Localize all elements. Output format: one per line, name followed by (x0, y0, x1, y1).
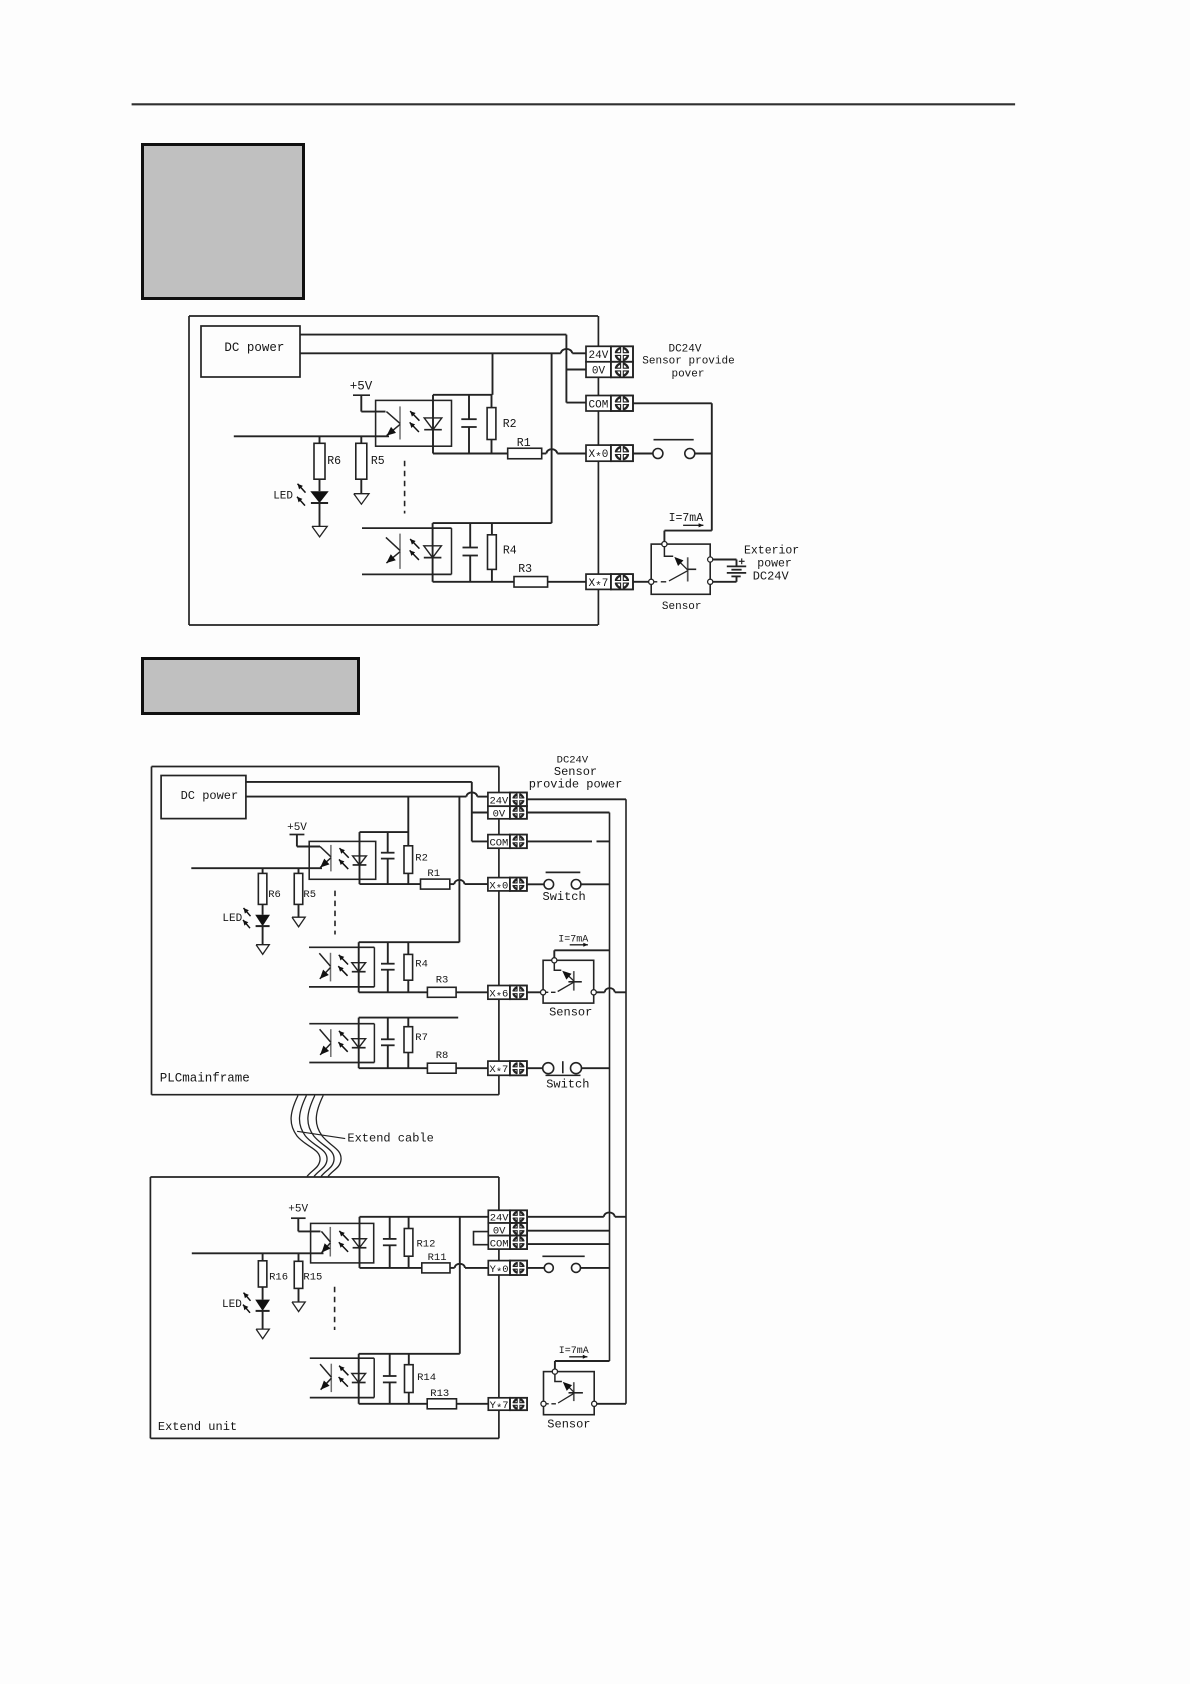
dashed continuation line S1 (404, 461, 406, 514)
wire: U1 LED anode/cathode line (432, 395, 434, 454)
sensor S1 box (651, 544, 710, 594)
wire: input line to U3 emitter (191, 867, 322, 869)
schematic 1 outer box right edge / terminal bus (597, 316, 599, 625)
resistor R13 body (427, 1399, 456, 1409)
wire: R3 to X*6 (456, 991, 488, 993)
24V right bus (down to extend unit) (625, 799, 627, 1404)
capacitor C7 (383, 1354, 397, 1404)
wire: 0V E to bus (527, 1230, 609, 1232)
optocoupler U1 package box (376, 400, 452, 446)
resistor R14 leads (408, 1354, 410, 1365)
optocoupler U1 LED (424, 418, 442, 430)
sensor E box (544, 1372, 595, 1415)
wire A2: DC power to 0V and COM (246, 782, 488, 842)
terminal COM E (488, 1236, 527, 1251)
optocoupler U6 light arrows (339, 1231, 349, 1252)
wire: U6 LED line (359, 1217, 361, 1268)
svg-text:pover: pover (671, 368, 704, 380)
switch at X*7 S2 (527, 1061, 610, 1075)
svg-text:Switch: Switch (546, 1078, 589, 1092)
resistor R14 body (405, 1365, 414, 1393)
svg-text:R8: R8 (436, 1050, 449, 1062)
terminal COM S2 (488, 835, 527, 850)
svg-text:LED: LED (222, 1299, 242, 1311)
svg-text:DC power: DC power (181, 789, 239, 803)
terminal Y*0 E (488, 1261, 527, 1279)
wire: U2 LED line (432, 523, 434, 582)
wire: input line to U6 emitter (192, 1252, 324, 1254)
wire: R1 to X*0 terminal (hops vertical) (542, 449, 586, 453)
svg-text:Switch: Switch (543, 890, 586, 904)
wire: X*6 to sensor S2 (527, 991, 541, 993)
optocoupler U7 light arrows (339, 1366, 349, 1387)
svg-text:LED: LED (273, 491, 293, 503)
optocoupler U2 package box (362, 528, 452, 574)
wire: feed to opto U3 R2 branch (407, 797, 409, 846)
svg-text:DC24V: DC24V (668, 344, 701, 356)
svg-text:X*7: X*7 (489, 1064, 508, 1079)
label I=7mA S1 (669, 512, 704, 527)
wire: U7 bottom rail to R13 (359, 1403, 428, 1405)
wire: U6 top rail = 24V row (360, 1216, 488, 1218)
resistor R5b body (294, 873, 303, 904)
svg-text:I=7mA: I=7mA (559, 1346, 589, 1357)
svg-text:R11: R11 (428, 1252, 447, 1264)
wire: U5 bottom rail to R8 (359, 1067, 428, 1069)
sensor S2 node circles (541, 958, 597, 995)
schematic 1 outer box (left, top, bottom edges) (189, 316, 598, 625)
wire: U5 LED line (358, 1018, 360, 1069)
terminal 0V E (488, 1223, 527, 1238)
wire: U7 top rail (359, 1353, 460, 1355)
DC power box S1 (201, 326, 300, 377)
wire: 24V S2 to right bus (527, 798, 626, 800)
label I=7mA S2 (558, 935, 588, 947)
terminal COM S1 (586, 395, 633, 411)
terminal 0V S1 (586, 362, 633, 378)
svg-text:R16: R16 (269, 1272, 288, 1284)
wire: U3 top rail (360, 831, 409, 833)
capacitor C1 (461, 395, 476, 454)
ground below R5 S2 (292, 917, 305, 927)
svg-text:X*7: X*7 (589, 578, 609, 593)
wire: U3 bottom rail to R1 (360, 883, 421, 885)
svg-text:R6: R6 (268, 889, 281, 901)
optocoupler U3 LED (353, 856, 367, 865)
svg-text:+5V: +5V (350, 380, 373, 394)
terminal 24V S2 (488, 793, 527, 808)
resistor R5 body (356, 443, 367, 479)
LED2 emission arrows (243, 908, 251, 928)
wire: feed down to opto U4 rail (crossed by R1 wire) (458, 797, 460, 943)
terminal 24V E (488, 1210, 527, 1225)
resistor R2 body (487, 408, 496, 440)
optocoupler U4 light arrows (338, 955, 348, 976)
svg-text:I=7mA: I=7mA (669, 512, 704, 525)
svg-text:R6: R6 (327, 455, 341, 468)
wire A: DC power to 0V and COM (300, 335, 586, 403)
svg-text:+5V: +5V (288, 1204, 308, 1216)
sensor S1 output transistor (651, 544, 696, 582)
svg-text:COM: COM (589, 399, 609, 411)
resistor R15 body (294, 1261, 303, 1288)
wire: R3 to X*7 terminal (548, 581, 586, 583)
indicator LED LED1 (310, 491, 328, 503)
resistor R6b body (258, 873, 267, 904)
ground below LED2 (256, 945, 269, 955)
resistor R7 body (404, 1027, 413, 1053)
page top rule (132, 103, 1016, 105)
0V/COM right bus (down to extend unit) (609, 813, 611, 1362)
resistor R1b body (421, 879, 450, 889)
svg-text:R14: R14 (417, 1372, 436, 1384)
terminal Y*7 E (488, 1397, 527, 1415)
ground below LED3 (256, 1329, 269, 1339)
svg-text:Y*7: Y*7 (490, 1400, 509, 1415)
resistor R11 body (422, 1263, 450, 1273)
svg-text:Y*0: Y*0 (490, 1264, 509, 1279)
svg-text:R5: R5 (371, 455, 385, 468)
resistor R12 leads (408, 1217, 410, 1229)
optocoupler U1 phototransistor (386, 406, 400, 439)
svg-text:COM: COM (489, 837, 508, 849)
wire: X*7 to sensor S1 (633, 581, 649, 583)
wire: U6 bottom rail to R11 (360, 1267, 422, 1269)
dashed continuation line S2 (334, 891, 336, 935)
optocoupler U6 phototransistor (321, 1227, 330, 1257)
wire: COM to sensor loop (633, 403, 712, 544)
optocoupler U6 LED (353, 1239, 367, 1248)
sensor S1 node circles (649, 542, 713, 585)
resistor R7 leads (407, 1018, 409, 1027)
wire: R8 to X*7 (456, 1067, 488, 1069)
svg-text:DC24V: DC24V (753, 570, 790, 584)
resistor R4 leads (491, 523, 493, 535)
PLC mainframe box (left, top, bottom edges) (152, 767, 499, 1095)
wire: +24V feed down to opto U2 rail (crossed by R1 wire) (551, 353, 553, 523)
resistor R16 body (258, 1261, 267, 1287)
label I=7mA extend (559, 1346, 589, 1359)
terminal X*7 S1 (586, 574, 633, 593)
wire: R13 to Y*7 (457, 1403, 489, 1405)
svg-text:R3: R3 (436, 975, 449, 987)
wire: U2 top rail (433, 522, 552, 524)
optocoupler U4 package box (309, 947, 374, 987)
sensor S2 box (543, 960, 594, 1003)
capacitor C4 (381, 942, 395, 992)
svg-text:LED: LED (222, 913, 242, 925)
optocoupler U3 package box (309, 841, 376, 879)
svg-text:X*0: X*0 (489, 880, 508, 895)
wire: LED1 to ground (319, 503, 321, 526)
optocoupler U7 phototransistor (320, 1364, 331, 1392)
resistor R8 body (427, 1063, 456, 1073)
+5V supply extend (288, 1204, 320, 1232)
wire: U4 LED line (358, 942, 360, 992)
svg-text:Sensor: Sensor (549, 1006, 592, 1020)
wire: input line to U1 emitter (234, 435, 389, 437)
text DC24V Sensor provide power S2 (529, 755, 623, 792)
indicator LED LED2 (255, 915, 270, 926)
terminal 24V S1 (586, 346, 633, 362)
wire: U2 bottom rail to R3 (433, 581, 514, 583)
wire: 0V S2 to right bus (527, 812, 610, 814)
svg-text:R1: R1 (517, 437, 531, 450)
DC power box S2 (161, 776, 246, 819)
optocoupler U2 light arrows (410, 539, 420, 560)
optocoupler U2 phototransistor (386, 534, 400, 569)
LED1 emission arrows (297, 484, 306, 506)
svg-text:R3: R3 (518, 563, 532, 576)
wire: COM E to bus (527, 1243, 609, 1245)
terminal X*0 S2 (488, 878, 527, 896)
wire: sensor S2 output to 24V bus (hop) (596, 988, 626, 992)
optocoupler U4 LED (352, 963, 366, 972)
resistor R3 body (514, 577, 548, 588)
extend cable curves (291, 1096, 341, 1177)
wire: sensor S2 supply from bus (554, 950, 609, 960)
wire: feed down to opto U7 rail (crossed by R11 wire) (459, 1217, 461, 1354)
svg-text:R12: R12 (417, 1239, 436, 1251)
svg-text:PLCmainframe: PLCmainframe (160, 1072, 250, 1086)
label Exterior power DC24V (744, 545, 799, 584)
optocoupler U1 light arrows (410, 411, 420, 432)
battery Exterior power DC24V (713, 558, 746, 581)
gray title box 2 (143, 659, 359, 714)
capacitor C2 (463, 523, 478, 582)
optocoupler U7 LED (352, 1374, 366, 1383)
optocoupler U5 LED (352, 1039, 366, 1048)
wire: 24V E to 24V bus (hop over 0V bus) (527, 1212, 626, 1216)
svg-text:Exterior: Exterior (744, 545, 799, 558)
resistor R4b body (404, 954, 413, 980)
optocoupler U5 package box (309, 1024, 374, 1063)
dashed continuation line extend (334, 1287, 336, 1330)
svg-text:Sensor: Sensor (547, 1418, 590, 1432)
ground below LED1 (312, 526, 327, 537)
sensor S2 output transistor (543, 960, 582, 992)
resistor R1 body (508, 448, 542, 459)
svg-text:R7: R7 (415, 1032, 428, 1044)
svg-text:R13: R13 (430, 1388, 449, 1400)
optocoupler U5 phototransistor (320, 1029, 331, 1057)
terminal X*6 S2 (488, 986, 527, 1004)
svg-text:+5V: +5V (287, 822, 307, 834)
optocoupler U3 light arrows (339, 848, 349, 869)
optocoupler U4 phototransistor (319, 953, 330, 982)
wire: R11 to Y*0 (hop) (450, 1264, 488, 1268)
resistor R2 leads (491, 395, 493, 408)
optocoupler U5 light arrows (338, 1031, 348, 1052)
wire: +24V feed down to opto U1 rail (492, 353, 494, 395)
extend unit right edge / terminal bus (498, 1177, 500, 1438)
svg-text:0V: 0V (493, 809, 506, 821)
wire: U4 top rail (359, 941, 460, 943)
extend unit box (left, top, bottom edges) (150, 1177, 499, 1438)
terminal X*0 S1 (586, 445, 633, 464)
wire B: DC power to 24V terminal (hops over wire A vertical) (300, 349, 586, 353)
wire: U1 top rail (433, 394, 493, 396)
svg-text:provide power: provide power (529, 778, 623, 792)
extend cable leader line (297, 1131, 345, 1138)
svg-text:X*6: X*6 (489, 988, 508, 1003)
svg-text:R4: R4 (503, 545, 517, 558)
svg-text:R1: R1 (427, 868, 440, 880)
text DC24V sensor provide power S1 (642, 344, 734, 381)
indicator LED LED3 (255, 1300, 270, 1311)
sensor E node circles (541, 1369, 597, 1406)
ground below R5 (354, 494, 369, 505)
switch at X*0 S2 (527, 872, 610, 889)
capacitor C6 (383, 1217, 397, 1268)
switch at Y*0 (527, 1256, 609, 1272)
capacitor C3 (381, 832, 395, 884)
terminal X*7 S2 (488, 1061, 527, 1079)
U-link joining 0V and COM left side (474, 1232, 489, 1245)
wire: U3 LED line (359, 832, 361, 884)
resistor R4 body (488, 535, 497, 570)
svg-text:R15: R15 (303, 1272, 322, 1284)
terminal 0V S2 (488, 806, 527, 821)
resistor R5 S2 leads (298, 868, 300, 873)
wire B2: DC power to 24V terminal (hop) (246, 792, 488, 796)
wire: U4 bottom rail to R3 (359, 991, 428, 993)
svg-text:R2: R2 (415, 853, 428, 865)
svg-text:R2: R2 (503, 418, 517, 431)
+5V supply S1 (350, 380, 386, 412)
gray title box 1 (143, 145, 304, 299)
svg-text:DC power: DC power (224, 341, 284, 355)
resistor R12 body (404, 1229, 413, 1257)
optocoupler U7 package box (310, 1358, 374, 1397)
wire: U7 LED line (358, 1354, 360, 1404)
svg-text:R5: R5 (303, 889, 316, 901)
resistor R3b body (427, 987, 456, 997)
svg-text:Sensor provide: Sensor provide (642, 356, 734, 368)
ground below R15 (292, 1302, 305, 1312)
wire: U1 bottom rail to R1 (433, 453, 508, 455)
resistor R15 leads (298, 1253, 300, 1261)
optocoupler U2 LED (424, 546, 442, 558)
svg-text:Extend cable: Extend cable (347, 1132, 433, 1146)
resistor R6 body (314, 443, 325, 479)
wire: U5 top rail (ends free) (359, 1017, 459, 1019)
wire: R1 to X*0 (hop) (450, 880, 488, 884)
resistor R6 leads (319, 436, 321, 443)
resistor R5 leads (360, 436, 362, 443)
svg-text:0V: 0V (592, 366, 606, 378)
optocoupler U6 package box (311, 1223, 374, 1263)
wire: sensor E supply from 0V bus (555, 1361, 610, 1372)
resistor R2b body (404, 846, 413, 874)
LED3 emission arrows (243, 1293, 251, 1313)
resistor R16 leads (262, 1253, 264, 1261)
PLC mainframe right edge / terminal bus (498, 767, 500, 1095)
wire: COM S2 to bus (527, 840, 610, 842)
switch contact at X*0 S1 (633, 440, 712, 459)
resistor R4 S2 leads (407, 942, 409, 954)
svg-text:COM: COM (490, 1238, 509, 1250)
sensor E output transistor (544, 1372, 583, 1404)
wire: sensor E output to 24V bus end (597, 1403, 626, 1405)
+5V supply S2 (287, 822, 320, 847)
resistor R6 S2 leads (262, 868, 264, 873)
svg-text:R4: R4 (415, 959, 428, 971)
svg-text:Sensor: Sensor (662, 601, 702, 613)
optocoupler U3 phototransistor (320, 845, 331, 872)
capacitor C5 (381, 1018, 395, 1069)
svg-text:24V: 24V (589, 350, 609, 362)
svg-text:Extend unit: Extend unit (158, 1420, 237, 1434)
